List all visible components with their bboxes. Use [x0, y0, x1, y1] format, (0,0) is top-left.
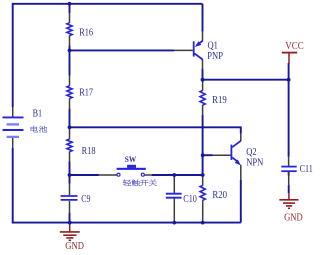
label SW chinese kai	[140, 180, 148, 186]
pin R18 top	[69, 129, 71, 139]
pin SW right	[144, 174, 152, 176]
battery B1 plate short lower	[7, 136, 19, 138]
node junction VCC rail / C11	[287, 78, 291, 82]
ground GND right bar1	[279, 199, 298, 201]
svg-text:B1: B1	[33, 108, 43, 119]
battery B1 plate long bottom	[3, 129, 24, 131]
resistor R17	[67, 86, 72, 99]
pin Q1 base	[174, 49, 193, 51]
wire bottom rail	[12, 222, 241, 224]
svg-text:C10: C10	[183, 193, 197, 204]
wire C9 to bottom	[69, 213, 71, 223]
power VCC bar	[282, 52, 297, 54]
battery B1 plate short upper	[7, 123, 19, 125]
pin Q1 emitter	[202, 31, 204, 41]
capacitor C9 plate bottom	[61, 199, 78, 201]
pin C9 bottom	[69, 201, 71, 213]
capacitor C10 plate bottom	[166, 197, 182, 199]
pin C10 top	[173, 175, 175, 193]
wire base node Q1	[70, 49, 175, 51]
wire R16 bottom to node	[69, 46, 71, 51]
transistor Q2 emitter arrow	[235, 160, 241, 166]
svg-text:R20: R20	[212, 189, 227, 201]
node junction R17 R18 node	[68, 125, 72, 129]
wire Q1 collector to node	[202, 69, 204, 81]
wire node to R18	[69, 127, 71, 129]
power VCC stem	[288, 53, 290, 64]
resistor R20	[200, 185, 205, 200]
transistor Q2 emitter diagonal	[232, 157, 238, 162]
wire VCC rail down to C11	[288, 63, 290, 157]
label SW chinese qing	[123, 179, 131, 186]
pin Q2 emitter	[240, 165, 242, 181]
label B1 chinese dian	[31, 126, 38, 132]
transistor Q1 emitter diagonal	[197, 41, 203, 45]
ground GND right bar3	[286, 205, 292, 207]
node junction R16 R17 base node	[68, 49, 72, 53]
svg-text:NPN: NPN	[246, 157, 263, 169]
wire R19 bottom run	[202, 115, 204, 175]
switch SW actuator bar	[117, 168, 146, 170]
wire C11 ground mid stub	[288, 185, 290, 193]
ground GND left bar1	[60, 231, 80, 233]
node junction R18 SW C9 node	[68, 173, 72, 177]
label SW chinese guan	[149, 179, 157, 186]
pin B1 bottom	[12, 138, 14, 149]
pin R16 bottom	[69, 35, 71, 45]
wire Q2 collector drop	[240, 126, 242, 133]
ground GND right bar2	[283, 202, 295, 204]
wire SW node to C9	[69, 175, 71, 184]
battery B1 plate long top	[3, 116, 24, 118]
wire node to R17	[69, 50, 71, 75]
pin C11 bottom	[288, 172, 290, 186]
switch SW contact left	[117, 173, 120, 176]
svg-text:C9: C9	[81, 193, 91, 204]
resistor R19	[200, 91, 205, 106]
node junction Q2 base tap	[201, 153, 205, 157]
pin R16 top	[69, 13, 71, 23]
ground GND left bar2	[63, 234, 76, 236]
node junction top rail / R16	[68, 2, 72, 6]
svg-text:GND: GND	[284, 213, 303, 224]
node junction C10 top	[172, 173, 176, 177]
svg-text:R17: R17	[79, 87, 93, 99]
wire left rail upper	[12, 3, 14, 107]
node junction C9 GND bottom	[68, 221, 72, 225]
pin SW left	[99, 174, 117, 176]
switch SW button	[127, 165, 136, 168]
node junction Q1 collector / R19	[201, 78, 205, 82]
wire SW right to node	[152, 174, 203, 176]
node junction R20 bottom	[201, 221, 205, 225]
svg-text:PNP: PNP	[207, 50, 223, 62]
wire R18 to SW node	[69, 162, 71, 176]
pin Q1 collector	[202, 59, 204, 69]
switch SW contact right	[141, 173, 144, 176]
ground GND left bar3	[66, 237, 73, 239]
wire Q1 emitter top	[202, 4, 204, 32]
wire Q2 emitter to bottom	[240, 180, 242, 223]
pin R20 bottom	[202, 200, 204, 222]
ground GND left bar4	[69, 239, 72, 241]
ground GND right bar4	[288, 207, 290, 209]
svg-text:VCC: VCC	[285, 40, 304, 52]
pin R17 bottom	[69, 98, 71, 109]
pin C9 top	[69, 183, 71, 195]
capacitor C10 plate top	[166, 193, 182, 195]
node junction C10 bottom	[172, 221, 176, 225]
svg-text:R19: R19	[212, 94, 227, 106]
wire left rail lower	[12, 148, 14, 223]
pin R17 top	[69, 76, 71, 86]
pin B1 top	[12, 107, 14, 117]
wire top rail	[13, 3, 203, 5]
transistor Q1 emitter arrow	[195, 41, 202, 47]
wire Q2 base stub	[203, 154, 213, 156]
wire C11 to ground stub	[288, 172, 290, 176]
pin R20 top	[202, 175, 204, 186]
ground GND left stem	[69, 223, 71, 232]
svg-text:R18: R18	[82, 145, 96, 157]
pin Q2 collector	[240, 133, 242, 141]
wire SW left	[70, 174, 99, 176]
label B1 chinese chi	[39, 126, 47, 133]
node junction SW right / R20	[201, 173, 205, 177]
transistor Q2 collector diagonal	[232, 141, 241, 147]
wire collector Q1 to VCC rail	[203, 79, 289, 81]
resistor R16	[67, 23, 72, 36]
svg-text:SW: SW	[125, 155, 136, 165]
pin R19 bottom	[202, 105, 204, 115]
wire R17 to node	[69, 109, 71, 127]
capacitor C11 plate bottom	[281, 170, 296, 172]
transistor Q2 base bar	[231, 145, 233, 160]
resistor R18	[67, 139, 72, 152]
svg-text:GND: GND	[65, 241, 84, 252]
transistor Q1 collector diagonal	[194, 53, 202, 59]
pin R18 bottom	[69, 152, 71, 162]
wire R16 top	[69, 4, 71, 13]
pin C11 top	[288, 157, 290, 167]
svg-text:C11: C11	[300, 163, 314, 174]
label SW chinese chu	[132, 179, 140, 186]
wire collector net horizontal	[70, 126, 241, 128]
transistor Q1 base bar	[193, 41, 195, 56]
ground GND right stem	[288, 193, 290, 200]
capacitor C9 plate top	[61, 195, 78, 197]
pin Q2 base	[212, 154, 230, 156]
pin C10 bottom	[173, 198, 175, 223]
pin R19 top	[202, 80, 204, 90]
svg-text:R16: R16	[79, 27, 93, 39]
capacitor C11 plate top	[281, 166, 296, 168]
